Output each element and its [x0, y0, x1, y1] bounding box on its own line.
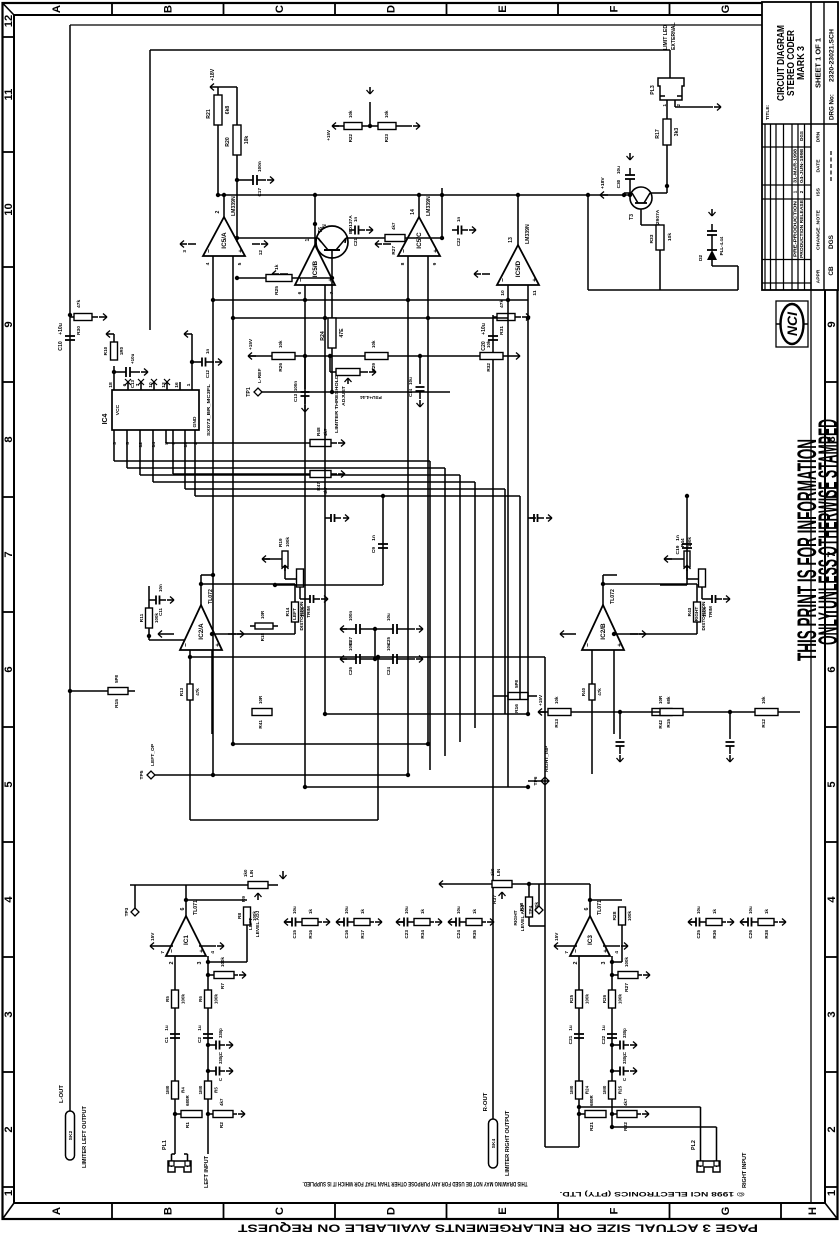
svg-text:13: 13 [508, 237, 514, 243]
svg-text:MARK 3: MARK 3 [796, 46, 807, 80]
svg-text:R41: R41 [258, 720, 263, 729]
svg-text:R13: R13 [179, 687, 184, 696]
svg-text:RIGHT: RIGHT [513, 910, 519, 925]
svg-text:R22: R22 [348, 133, 353, 142]
svg-text:PL3: PL3 [650, 85, 656, 95]
svg-text:E: E [497, 5, 509, 13]
svg-text:1n: 1n [371, 535, 377, 541]
svg-text:1k: 1k [420, 909, 425, 914]
svg-text:R7: R7 [220, 983, 226, 990]
svg-text:−: − [206, 249, 213, 253]
svg-text:100k: 100k [627, 911, 632, 921]
svg-text:TRIM: TRIM [708, 606, 713, 618]
svg-text:LEFT_OP: LEFT_OP [150, 743, 156, 766]
svg-text:10u: 10u [456, 906, 461, 914]
svg-text:C24: C24 [456, 930, 461, 939]
svg-text:3k3: 3k3 [674, 128, 680, 137]
svg-text:8: 8 [400, 262, 406, 265]
svg-text:3: 3 [197, 961, 203, 964]
svg-text:TP4: TP4 [528, 905, 533, 914]
svg-text:680R: 680R [589, 1095, 594, 1106]
svg-text:PAGE 3 ACTUAL SIZE OR ENLARGE: PAGE 3 ACTUAL SIZE OR ENLARGEMENTS AVAIL… [238, 1222, 758, 1234]
svg-text:D: D [386, 5, 398, 13]
svg-text:11: 11 [3, 89, 15, 101]
svg-text:11: 11 [532, 290, 538, 295]
svg-text:R28: R28 [612, 911, 618, 920]
svg-text:3: 3 [601, 961, 607, 964]
svg-text:+15V: +15V [538, 694, 543, 706]
svg-text:R16: R16 [308, 930, 313, 939]
svg-text:THIS DRAWING MAY NOT BE USED F: THIS DRAWING MAY NOT BE USED FOR ANY PUR… [302, 1180, 527, 1187]
svg-text:10n: 10n [158, 584, 163, 592]
svg-text:1k: 1k [274, 264, 280, 270]
svg-text:16: 16 [174, 382, 180, 388]
svg-text:1n: 1n [456, 217, 461, 222]
svg-text:C13: C13 [293, 393, 298, 402]
svg-text:100k: 100k [624, 957, 629, 967]
svg-text:C12: C12 [205, 369, 210, 378]
svg-text:IC5/D: IC5/D [515, 260, 522, 277]
svg-text:C: C [274, 5, 286, 13]
svg-text:R26: R26 [602, 994, 607, 1003]
svg-text:SK4: SK4 [491, 1139, 497, 1149]
svg-text:+10u: +10u [58, 323, 64, 335]
svg-text:C22: C22 [601, 1035, 606, 1044]
svg-text:R40: R40 [581, 687, 586, 696]
svg-text:R47: R47 [316, 482, 321, 491]
svg-text:R42: R42 [658, 720, 663, 729]
svg-text:D2: D2 [698, 255, 704, 262]
svg-text:R15: R15 [114, 699, 120, 708]
svg-text:LIN: LIN [496, 869, 501, 876]
svg-text:C16: C16 [344, 930, 349, 939]
svg-text:LIMITER RIGHT OUTPUT: LIMITER RIGHT OUTPUT [505, 1110, 511, 1176]
svg-text:100n: 100n [257, 161, 262, 172]
svg-text:15V: 15V [150, 932, 155, 941]
svg-text:+: + [603, 949, 610, 953]
svg-text:R25: R25 [618, 1085, 623, 1094]
svg-text:C21: C21 [568, 1035, 573, 1044]
svg-text:9: 9 [3, 321, 15, 327]
svg-text:© 1998 NCI ELECTRONICS (PTY): © 1998 NCI ELECTRONICS (PTY) LTD. [559, 1190, 744, 1198]
svg-text:R11: R11 [139, 613, 144, 622]
svg-text:1k: 1k [308, 909, 313, 914]
svg-text:C: C [218, 1077, 223, 1081]
svg-text:7: 7 [564, 951, 570, 954]
svg-text:LIMITER LEFT OUTPUT: LIMITER LEFT OUTPUT [82, 1105, 88, 1168]
svg-text:−: − [169, 949, 176, 953]
svg-text:C23: C23 [404, 930, 409, 939]
svg-text:5: 5 [237, 262, 243, 265]
svg-text:IC3: IC3 [587, 935, 594, 945]
svg-text:10u: 10u [748, 906, 753, 914]
svg-text:R1: R1 [185, 1122, 191, 1129]
svg-text:4k7: 4k7 [623, 1098, 628, 1106]
svg-text:−: − [183, 643, 190, 647]
svg-text:680R: 680R [185, 1095, 190, 1106]
svg-text:B: B [163, 5, 175, 13]
svg-text:LEFT INPUT: LEFT INPUT [204, 1155, 210, 1188]
svg-text:C11: C11 [158, 607, 163, 615]
svg-text:4: 4 [205, 262, 211, 265]
svg-text:14: 14 [151, 442, 157, 448]
svg-text:R27: R27 [391, 246, 396, 255]
svg-text:10k: 10k [371, 340, 376, 348]
svg-text:C25: C25 [386, 636, 391, 645]
svg-text:R30: R30 [76, 326, 82, 335]
svg-text:8: 8 [3, 436, 15, 442]
svg-text:C30: C30 [616, 179, 621, 188]
svg-text:R38: R38 [764, 930, 769, 939]
svg-text:12: 12 [258, 250, 263, 256]
svg-text:IC5/B: IC5/B [312, 260, 319, 277]
svg-text:F: F [609, 5, 621, 12]
svg-text:PRE-PRODUCTION: PRE-PRODUCTION [793, 201, 798, 257]
svg-text:1u: 1u [164, 1025, 169, 1031]
svg-text:10u: 10u [696, 906, 701, 914]
svg-text:R15: R15 [666, 719, 671, 728]
svg-text:BD137A: BD137A [348, 215, 354, 234]
svg-text:2: 2 [826, 1126, 838, 1132]
svg-text:R20: R20 [225, 137, 231, 147]
svg-text:−: − [401, 249, 408, 253]
svg-text:4: 4 [210, 951, 216, 954]
svg-text:C9: C9 [371, 547, 377, 554]
svg-text:+: + [238, 249, 245, 253]
svg-text:R5: R5 [214, 1087, 219, 1093]
svg-text:1M0: 1M0 [569, 1085, 574, 1094]
svg-text:R12: R12 [761, 719, 766, 728]
svg-text:1k0: 1k0 [490, 868, 495, 876]
svg-text:10u: 10u [386, 613, 391, 621]
svg-text:GND: GND [192, 416, 198, 427]
svg-text:TP5: TP5 [139, 770, 145, 779]
svg-text:+18V: +18V [210, 68, 216, 81]
svg-text:10R: 10R [658, 695, 663, 704]
svg-text:PLL-4.44: PLL-4.44 [719, 236, 724, 255]
svg-text:10: 10 [3, 203, 15, 216]
svg-text:R23: R23 [384, 133, 389, 142]
svg-text:10u: 10u [292, 906, 297, 914]
svg-text:C13: C13 [130, 379, 135, 388]
svg-text:−: − [573, 949, 580, 953]
svg-text:R-OUT: R-OUT [483, 1092, 489, 1111]
svg-text:+10u: +10u [481, 323, 487, 335]
svg-text:D: D [386, 1207, 398, 1215]
svg-text:10u: 10u [344, 906, 349, 914]
svg-text:04-JUN-1998: 04-JUN-1998 [799, 148, 804, 183]
svg-text:2: 2 [169, 961, 175, 964]
svg-text:+15V: +15V [248, 338, 253, 350]
svg-text:R10: R10 [103, 346, 108, 355]
svg-text:R22: R22 [623, 1122, 629, 1131]
svg-text:C26: C26 [748, 930, 753, 939]
svg-text:3: 3 [826, 1011, 838, 1017]
svg-text:330p: 330p [622, 1028, 627, 1038]
svg-text:G: G [720, 4, 732, 13]
svg-text:SHEET 1 OF 1: SHEET 1 OF 1 [816, 38, 823, 88]
svg-text:1k: 1k [360, 909, 365, 914]
svg-text:EXTERNAL: EXTERNAL [671, 22, 677, 50]
svg-text:C10: C10 [58, 341, 64, 351]
svg-text:+: + [617, 643, 624, 647]
svg-text:T6: T6 [318, 227, 324, 233]
svg-text:IC4: IC4 [102, 413, 109, 424]
svg-text:SK2: SK2 [68, 1131, 74, 1141]
svg-text:12: 12 [138, 442, 144, 448]
svg-text:100k: 100k [285, 537, 290, 547]
svg-text:1M0: 1M0 [198, 1085, 203, 1094]
svg-text:1u: 1u [601, 1025, 606, 1031]
svg-text:R24: R24 [585, 1085, 590, 1094]
svg-text:2: 2 [3, 1126, 15, 1132]
svg-text:LM339N: LM339N [525, 224, 531, 244]
svg-text:R4: R4 [181, 1087, 186, 1093]
svg-text:+: + [199, 949, 206, 953]
svg-text:1: 1 [186, 383, 192, 386]
svg-text:R19: R19 [278, 538, 283, 547]
svg-text:DATE: DATE [816, 159, 822, 173]
svg-text:IC2/B: IC2/B [600, 623, 607, 640]
svg-text:C27: C27 [348, 636, 353, 645]
svg-text:100k: 100k [181, 994, 186, 1004]
svg-text:3: 3 [3, 1011, 15, 1017]
svg-text:R43: R43 [687, 607, 692, 616]
svg-text:5P8: 5P8 [114, 675, 119, 683]
svg-text:1M0: 1M0 [602, 1085, 607, 1094]
svg-text:3: 3 [182, 250, 187, 253]
svg-text:CHANGE_NOTE: CHANGE_NOTE [816, 209, 822, 250]
svg-text:1k: 1k [472, 909, 477, 914]
svg-text:6: 6 [180, 907, 186, 910]
svg-text:+: + [215, 643, 222, 647]
svg-text:IC2/A: IC2/A [198, 623, 205, 640]
svg-text:R9: R9 [241, 896, 247, 903]
svg-text:R48: R48 [316, 427, 321, 436]
svg-text:1n: 1n [205, 349, 210, 354]
svg-text:DGS: DGS [799, 131, 804, 141]
svg-text:−: − [500, 278, 507, 282]
svg-text:T3: T3 [629, 214, 635, 220]
svg-text:1R0: 1R0 [119, 346, 124, 355]
svg-text:LEVEL ADJ: LEVEL ADJ [255, 910, 261, 937]
svg-text:47E: 47E [339, 328, 345, 338]
svg-text:9: 9 [432, 262, 438, 265]
svg-text:A: A [51, 5, 63, 13]
svg-text:R17: R17 [360, 930, 365, 939]
svg-text:C24: C24 [386, 666, 391, 675]
svg-text:−: − [585, 643, 592, 647]
svg-text:1u: 1u [568, 1025, 573, 1031]
svg-text:LEFT: LEFT [292, 608, 297, 620]
svg-text:C: C [274, 1207, 286, 1215]
svg-text:+: + [532, 278, 539, 282]
svg-text:9: 9 [826, 321, 838, 327]
svg-text:C26: C26 [348, 666, 353, 675]
svg-text:+10u: +10u [130, 353, 135, 364]
svg-text:1: 1 [662, 104, 667, 107]
svg-text:C22: C22 [456, 237, 461, 246]
svg-text:C: C [622, 1051, 627, 1055]
svg-text:1k0: 1k0 [243, 869, 248, 877]
svg-text:IC1: IC1 [183, 935, 190, 945]
svg-text:C: C [622, 1077, 627, 1081]
svg-text:R25: R25 [274, 286, 280, 295]
svg-text:ONLY UNLESS OTHERWISE STAMPED: ONLY UNLESS OTHERWISE STAMPED [813, 419, 840, 645]
svg-text:15V: 15V [554, 932, 559, 941]
svg-text:2: 2 [799, 190, 804, 193]
svg-text:R34: R34 [420, 930, 425, 939]
svg-text:R37: R37 [492, 895, 498, 904]
svg-text:TP1: TP1 [246, 387, 252, 397]
svg-text:SX073_BR_MC3FL: SX073_BR_MC3FL [206, 384, 212, 436]
svg-text:R24: R24 [320, 331, 326, 341]
svg-text:1: 1 [305, 238, 311, 241]
svg-text:R25: R25 [569, 994, 574, 1003]
svg-text:2320-23021.SCH: 2320-23021.SCH [829, 29, 836, 82]
svg-text:3: 3 [112, 442, 118, 445]
svg-text:2: 2 [573, 961, 579, 964]
svg-text:330p: 330p [218, 1054, 223, 1064]
svg-text:10u: 10u [616, 166, 621, 174]
svg-text:R2: R2 [219, 1122, 225, 1129]
svg-text:E: E [497, 1207, 509, 1215]
svg-text:1: 1 [826, 1190, 838, 1196]
svg-text:TP3: TP3 [124, 907, 129, 916]
svg-text:G: G [720, 1206, 732, 1215]
svg-text:ADJUST: ADJUST [341, 386, 347, 406]
svg-text:6: 6 [297, 291, 303, 294]
svg-text:R36: R36 [712, 930, 717, 939]
svg-text:6: 6 [826, 666, 838, 672]
svg-text:H: H [807, 1207, 819, 1215]
svg-text:B: B [163, 1207, 175, 1215]
svg-text:PSU+4.44: PSU+4.44 [360, 395, 382, 400]
svg-text:LIMITER THRESHOLD: LIMITER THRESHOLD [334, 374, 340, 433]
svg-text:10k: 10k [278, 340, 283, 348]
svg-text:68k: 68k [666, 696, 671, 704]
svg-text:4: 4 [614, 951, 620, 954]
svg-text:C17: C17 [257, 188, 262, 197]
svg-text:R16: R16 [514, 704, 520, 713]
svg-text:5: 5 [3, 781, 15, 787]
svg-text:6: 6 [3, 666, 15, 672]
svg-text:10u: 10u [404, 906, 409, 914]
svg-text:+15V: +15V [326, 130, 331, 141]
svg-text:R5: R5 [165, 996, 170, 1002]
svg-text:2: 2 [676, 104, 681, 107]
svg-text:47k: 47k [76, 300, 82, 308]
svg-text:R14: R14 [285, 607, 290, 616]
svg-text:L-REF: L-REF [257, 369, 263, 383]
svg-text:1M0: 1M0 [165, 1085, 170, 1094]
svg-text:6: 6 [584, 907, 590, 910]
svg-text:R8: R8 [237, 913, 243, 920]
svg-text:LEFT: LEFT [248, 918, 254, 930]
svg-text:R26: R26 [278, 363, 283, 372]
svg-text:4: 4 [826, 896, 838, 903]
svg-text:+: + [433, 249, 440, 253]
svg-text:TL072: TL072 [610, 589, 616, 604]
svg-text:7: 7 [3, 551, 15, 557]
svg-text:PRODUCTION RELEASE: PRODUCTION RELEASE [799, 200, 804, 258]
svg-text:C15: C15 [292, 930, 297, 939]
svg-text:DISTORTION: DISTORTION [701, 601, 706, 631]
svg-text:C1: C1 [164, 1037, 169, 1043]
svg-text:C: C [218, 1051, 223, 1055]
svg-text:100k: 100k [618, 994, 623, 1004]
svg-text:LIMIT LED: LIMIT LED [663, 25, 669, 50]
svg-text:10k: 10k [486, 340, 491, 348]
svg-text:10k: 10k [384, 110, 389, 118]
svg-text:APPR: APPR [816, 269, 822, 283]
svg-text:6k8: 6k8 [225, 106, 231, 115]
svg-text:R17: R17 [655, 129, 661, 139]
svg-text:LM339N: LM339N [231, 196, 237, 216]
svg-text:R33: R33 [649, 234, 655, 243]
svg-text:R21: R21 [589, 1122, 595, 1131]
svg-text:1: 1 [3, 1190, 15, 1196]
svg-text:DGS: DGS [828, 234, 835, 249]
svg-text:31-MAR-1998: 31-MAR-1998 [793, 148, 798, 183]
svg-text:100k: 100k [214, 994, 219, 1004]
svg-text:10k: 10k [554, 696, 559, 704]
svg-text:1: 1 [793, 190, 798, 193]
svg-text:10R: 10R [260, 610, 265, 619]
svg-text:47k: 47k [597, 688, 602, 696]
svg-text:LM339N: LM339N [426, 196, 432, 216]
svg-text:10: 10 [500, 290, 506, 296]
svg-text:1k: 1k [764, 909, 769, 914]
svg-text:IC5/A: IC5/A [221, 232, 228, 249]
svg-text:DISTORTION: DISTORTION [299, 601, 304, 631]
svg-text:LIN: LIN [249, 870, 254, 877]
svg-text:330p: 330p [218, 1028, 223, 1038]
svg-text:47k: 47k [195, 688, 200, 696]
svg-text:R21: R21 [206, 109, 212, 119]
svg-text:R35: R35 [472, 930, 477, 939]
svg-text:4: 4 [3, 896, 15, 903]
svg-text:C25: C25 [696, 930, 701, 939]
svg-text:7: 7 [160, 951, 166, 954]
svg-text:RIGHT INPUT: RIGHT INPUT [742, 1152, 748, 1188]
svg-text:18: 18 [108, 382, 114, 388]
svg-text:2: 2 [215, 210, 221, 213]
svg-text:R32: R32 [486, 363, 491, 372]
svg-text:IC5/C: IC5/C [416, 232, 423, 249]
svg-text:C21: C21 [353, 237, 358, 246]
svg-text:LEVEL ADJ: LEVEL ADJ [520, 904, 526, 931]
svg-text:10k: 10k [667, 233, 673, 241]
svg-text:10k: 10k [244, 136, 250, 145]
svg-text:100k: 100k [585, 994, 590, 1004]
svg-text:47k: 47k [499, 300, 505, 308]
svg-text:R31: R31 [499, 326, 505, 335]
svg-text:14: 14 [410, 209, 416, 215]
svg-text:10k: 10k [348, 110, 353, 118]
svg-text:100n: 100n [348, 611, 353, 621]
svg-text:PL1: PL1 [162, 1140, 168, 1150]
svg-text:NCI: NCI [784, 311, 800, 336]
svg-text:330p: 330p [622, 1054, 627, 1064]
svg-text:5: 5 [125, 442, 131, 445]
svg-text:TL071: TL071 [193, 900, 199, 915]
svg-text:DRG No:: DRG No: [829, 94, 836, 120]
svg-text:DRN: DRN [816, 131, 822, 142]
svg-text:4k7: 4k7 [391, 222, 396, 230]
svg-text:TRIM: TRIM [306, 606, 311, 618]
svg-text:C2: C2 [197, 1037, 202, 1043]
